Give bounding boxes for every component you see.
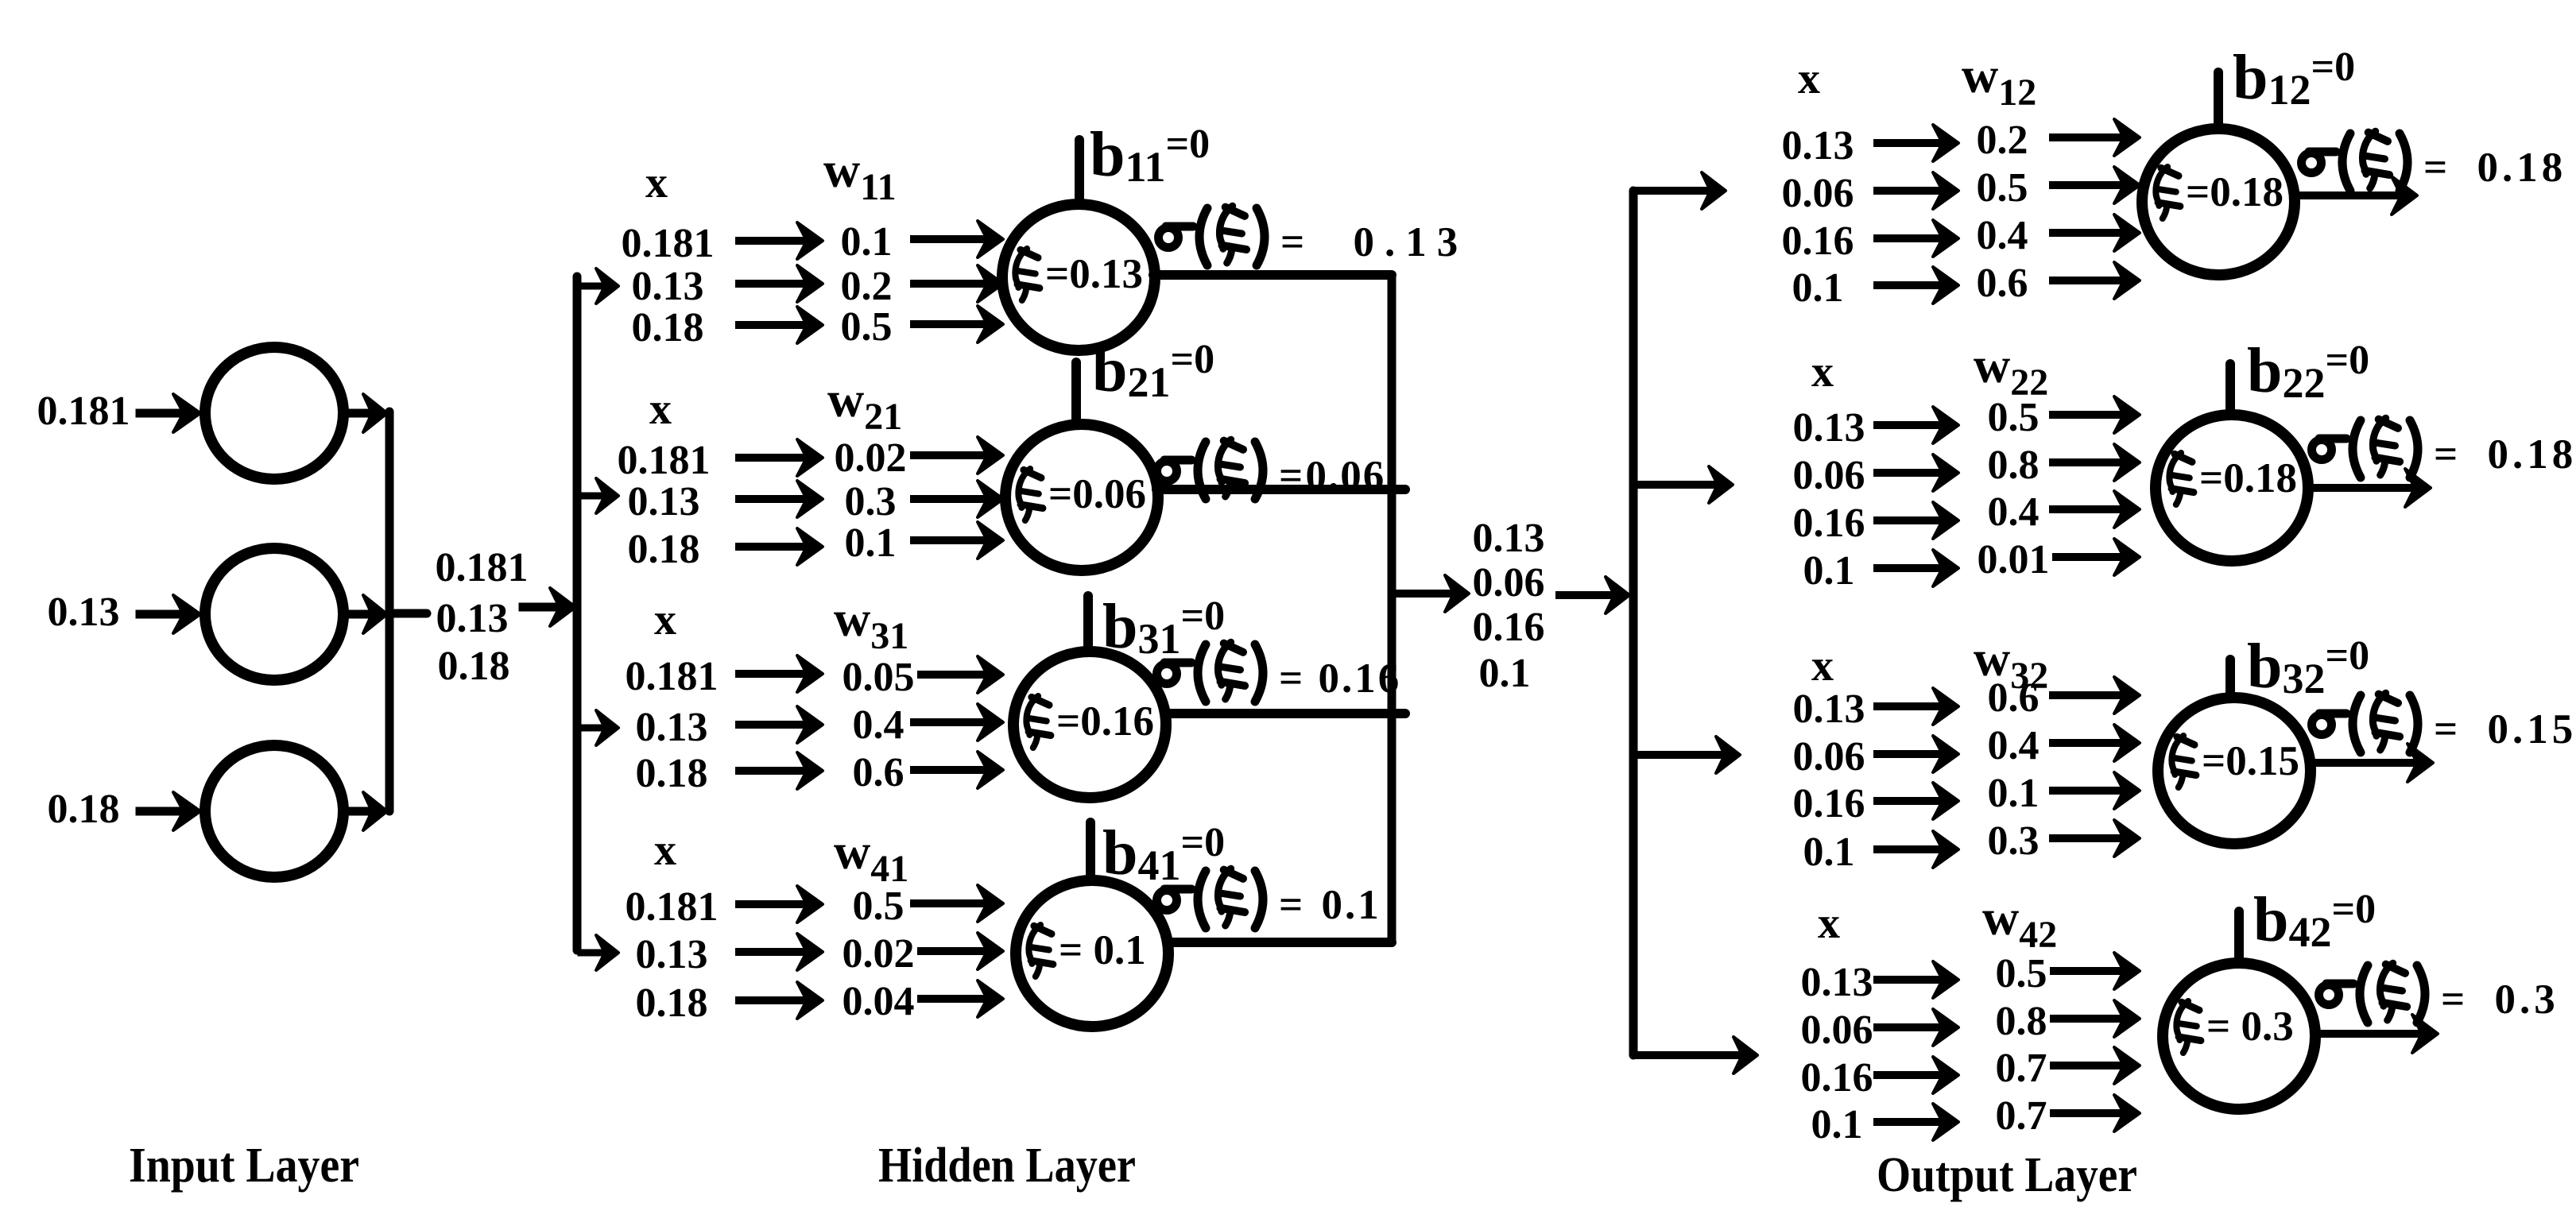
svg-text:0.1: 0.1 bbox=[845, 520, 897, 566]
hidden block 41 arrow w->neuron row 3 bbox=[921, 981, 1003, 1017]
svg-text:0.06: 0.06 bbox=[1793, 453, 1865, 498]
svg-text:x: x bbox=[1811, 641, 1834, 690]
svg-text:=0.13: =0.13 bbox=[1045, 251, 1143, 297]
svg-text:0.4: 0.4 bbox=[853, 702, 905, 748]
output block 12 arrow w->neuron row 1 bbox=[2053, 119, 2140, 156]
svg-text:= 0.15: = 0.15 bbox=[2434, 706, 2576, 752]
svg-text:0.181: 0.181 bbox=[626, 654, 719, 699]
output block 32 arrow x->w row 3 bbox=[1877, 783, 1958, 819]
bias wire b11 bbox=[1075, 140, 1084, 205]
output neuron O12 bbox=[2142, 129, 2295, 275]
branch arrow to hidden neuron H31 bbox=[581, 710, 618, 745]
bias wire b21 bbox=[1071, 362, 1081, 424]
output block 42 arrow w->neuron row 2 bbox=[2054, 1000, 2140, 1037]
wire collect bus stub bbox=[389, 609, 427, 618]
output arrow from neuron O42 bbox=[2314, 1015, 2438, 1053]
wire hidden neuron H11 output bbox=[1153, 270, 1392, 280]
svg-text:0.1: 0.1 bbox=[1988, 771, 2039, 816]
output arrow from neuron O32 bbox=[2309, 744, 2433, 782]
output block 32 arrow x->w row 2 bbox=[1877, 736, 1958, 772]
bias wire b31 bbox=[1083, 596, 1093, 650]
svg-text:= 0.3: = 0.3 bbox=[2441, 977, 2559, 1023]
svg-text:Output Layer: Output Layer bbox=[1877, 1148, 2137, 1202]
svg-text:= 0.1: = 0.1 bbox=[1059, 927, 1146, 973]
wire hidden neuron H21 output bbox=[1156, 485, 1405, 494]
output block 32 arrow w->neuron row 1 bbox=[2053, 677, 2140, 714]
branch arrow to output neuron O32 bbox=[1638, 737, 1740, 773]
output block 22 arrow w->neuron row 1 bbox=[2053, 396, 2140, 433]
output block 42 arrow w->neuron row 4 bbox=[2054, 1095, 2140, 1131]
svg-text:0.13: 0.13 bbox=[636, 705, 708, 750]
svg-text:= 0.16: = 0.16 bbox=[1279, 656, 1401, 702]
output block 32 arrow x->w row 1 bbox=[1877, 688, 1958, 725]
svg-text:0.16: 0.16 bbox=[1782, 219, 1854, 264]
svg-text:0.18: 0.18 bbox=[632, 305, 704, 350]
svg-text:0.02: 0.02 bbox=[835, 435, 907, 481]
branch arrow to hidden neuron H41 bbox=[581, 935, 618, 970]
hidden neuron H31 bbox=[1013, 652, 1166, 798]
svg-text:0.16: 0.16 bbox=[1801, 1055, 1873, 1100]
hidden distribution bus bbox=[573, 277, 582, 950]
svg-text:0.02: 0.02 bbox=[843, 931, 915, 977]
svg-text:0.13: 0.13 bbox=[1801, 960, 1873, 1005]
activation label sigma(xi)=0.06 bbox=[1157, 439, 1386, 499]
output block 12 arrow w->neuron row 3 bbox=[2053, 215, 2140, 251]
arrow input 3 bbox=[140, 792, 200, 830]
svg-text:x: x bbox=[645, 158, 668, 207]
output neuron O32 bbox=[2158, 698, 2311, 844]
svg-text:0.13: 0.13 bbox=[632, 264, 704, 309]
hidden neuron H11 bbox=[1002, 204, 1155, 350]
hidden block 31 arrow x->w row 2 bbox=[739, 706, 823, 743]
output block 32 arrow w->neuron row 4 bbox=[2053, 820, 2140, 857]
output block 22 arrow w->neuron row 4 bbox=[2056, 539, 2140, 575]
output block 42 arrow x->w row 1 bbox=[1877, 961, 1958, 998]
output arrow from neuron O12 bbox=[2293, 176, 2417, 215]
hidden block 31 arrow w->neuron row 1 bbox=[921, 656, 1003, 693]
output block 42 arrow w->neuron row 1 bbox=[2054, 953, 2140, 989]
output block 22 arrow w->neuron row 2 bbox=[2053, 444, 2140, 481]
svg-text:0.181: 0.181 bbox=[436, 545, 529, 590]
hidden block 41 arrow x->w row 3 bbox=[739, 982, 823, 1019]
hidden block 21 arrow x->w row 2 bbox=[739, 481, 823, 517]
input node I3 bbox=[205, 745, 343, 877]
svg-text:x: x bbox=[654, 826, 676, 875]
svg-text:0.18: 0.18 bbox=[636, 981, 708, 1026]
output block 12 arrow x->w row 1 bbox=[1877, 125, 1958, 161]
svg-text:0.13: 0.13 bbox=[436, 596, 509, 641]
svg-text:0.1: 0.1 bbox=[1803, 830, 1855, 875]
svg-text:0.181: 0.181 bbox=[626, 884, 719, 930]
svg-text:0.16: 0.16 bbox=[1793, 781, 1865, 826]
svg-text:0.16: 0.16 bbox=[1793, 501, 1865, 546]
output block 32 arrow w->neuron row 2 bbox=[2053, 725, 2140, 761]
svg-text:0.4: 0.4 bbox=[1988, 489, 2039, 535]
svg-text:0.1: 0.1 bbox=[1479, 651, 1531, 696]
svg-text:0.13: 0.13 bbox=[1473, 516, 1545, 561]
hidden block 31 arrow w->neuron row 3 bbox=[914, 752, 1003, 788]
output block 42 arrow w->neuron row 3 bbox=[2054, 1047, 2140, 1084]
svg-text:0.1: 0.1 bbox=[1811, 1102, 1863, 1147]
svg-text:0.01: 0.01 bbox=[1978, 537, 2050, 582]
output neuron O12 xi value bbox=[2156, 167, 2180, 219]
hidden neuron H31 xi value bbox=[1026, 696, 1051, 748]
hidden block 21 arrow x->w row 3 bbox=[739, 528, 823, 565]
hidden block 31 arrow x->w row 3 bbox=[739, 752, 823, 789]
svg-text:0.181: 0.181 bbox=[622, 221, 715, 266]
svg-text:0.4: 0.4 bbox=[1977, 213, 2028, 258]
bias wire b12 bbox=[2214, 72, 2223, 129]
svg-text:0.3: 0.3 bbox=[845, 479, 897, 524]
activation label sigma(xi)=0.16 bbox=[1157, 642, 1402, 702]
svg-text:0.1: 0.1 bbox=[1803, 548, 1855, 594]
arrow x list into hidden distribution bus bbox=[523, 588, 575, 626]
bias wire b22 bbox=[2225, 364, 2235, 413]
svg-text:0.06: 0.06 bbox=[1793, 734, 1865, 779]
svg-text:0.8: 0.8 bbox=[1996, 999, 2047, 1044]
svg-text:= 0.18: = 0.18 bbox=[2434, 431, 2576, 478]
svg-text:0.5: 0.5 bbox=[1988, 395, 2039, 440]
svg-text:0.18: 0.18 bbox=[48, 787, 120, 832]
output block 22 arrow x->w row 1 bbox=[1877, 407, 1958, 443]
svg-text:0.06: 0.06 bbox=[1473, 560, 1545, 605]
wire input node I1 to collect bus bbox=[345, 394, 387, 432]
svg-text:0.181: 0.181 bbox=[618, 438, 711, 483]
svg-text:0.13: 0.13 bbox=[1793, 405, 1865, 451]
svg-text:0.5: 0.5 bbox=[841, 304, 893, 350]
svg-text:x: x bbox=[1818, 899, 1840, 948]
output block 22 arrow x->w row 3 bbox=[1877, 502, 1958, 539]
output block 22 arrow w->neuron row 3 bbox=[2053, 491, 2140, 528]
output neuron O22 bbox=[2156, 415, 2308, 561]
svg-text:0.13: 0.13 bbox=[636, 932, 708, 977]
svg-text:0.1: 0.1 bbox=[1792, 265, 1844, 311]
input collect bus bbox=[385, 412, 394, 811]
hidden block 41 arrow w->neuron row 2 bbox=[921, 933, 1003, 969]
svg-text:0.13: 0.13 bbox=[628, 479, 700, 524]
wire hidden neuron H31 output bbox=[1164, 709, 1405, 718]
svg-text:Input Layer: Input Layer bbox=[129, 1139, 359, 1193]
svg-text:0.7: 0.7 bbox=[1996, 1046, 2047, 1091]
hidden block 11 arrow x->w row 1 bbox=[739, 222, 823, 259]
svg-text:= 0.13: = 0.13 bbox=[1280, 219, 1468, 265]
hidden block 11 arrow x->w row 2 bbox=[739, 265, 823, 302]
output block 12 arrow x->w row 2 bbox=[1877, 172, 1958, 209]
svg-text:0.8: 0.8 bbox=[1988, 443, 2039, 488]
activation label sigma(xi)=0.3 bbox=[2319, 963, 2559, 1023]
svg-text:x: x bbox=[649, 385, 672, 434]
svg-text:0.13: 0.13 bbox=[1782, 123, 1854, 168]
branch arrow to output neuron O22 bbox=[1638, 466, 1733, 503]
hidden block 31 arrow w->neuron row 2 bbox=[914, 704, 1003, 741]
arrow input 1 bbox=[140, 394, 200, 432]
svg-text:0.6: 0.6 bbox=[1977, 261, 2028, 306]
hidden neuron H21 bbox=[1005, 424, 1158, 571]
output block 12 arrow x->w row 3 bbox=[1877, 220, 1958, 257]
wire input node I2 to collect bus bbox=[345, 595, 387, 633]
svg-text:0.6: 0.6 bbox=[1988, 675, 2039, 721]
output block 32 arrow w->neuron row 3 bbox=[2053, 772, 2140, 809]
bias wire b42 bbox=[2234, 911, 2244, 961]
hidden block 41 arrow x->w row 1 bbox=[739, 886, 823, 922]
output neuron O42 bbox=[2163, 963, 2315, 1109]
branch arrow to output neuron O42 bbox=[1638, 1037, 1757, 1073]
arrow hidden outputs to y list bbox=[1396, 575, 1469, 612]
hidden collect bus bbox=[1388, 275, 1396, 942]
bias wire b41 bbox=[1086, 822, 1095, 879]
svg-text:Hidden Layer: Hidden Layer bbox=[878, 1139, 1136, 1193]
output arrow from neuron O22 bbox=[2307, 469, 2431, 507]
svg-text:0.13: 0.13 bbox=[48, 590, 120, 635]
arrow input 2 bbox=[140, 595, 200, 633]
output block 22 arrow x->w row 2 bbox=[1877, 454, 1958, 491]
hidden block 11 arrow w->neuron row 1 bbox=[914, 221, 1003, 257]
output neuron O32 xi value bbox=[2171, 736, 2196, 787]
activation label sigma(xi)=0.18 bbox=[2302, 131, 2567, 191]
hidden block 21 arrow w->neuron row 2 bbox=[914, 481, 1003, 517]
branch arrow to output neuron O12 bbox=[1638, 172, 1726, 209]
svg-text:=0.15: =0.15 bbox=[2202, 738, 2299, 784]
svg-text:x: x bbox=[1798, 54, 1820, 103]
output block 42 arrow x->w row 3 bbox=[1877, 1057, 1958, 1093]
svg-text:x: x bbox=[1811, 347, 1834, 396]
output neuron O22 xi value bbox=[2169, 453, 2194, 505]
output block 42 arrow x->w row 4 bbox=[1877, 1104, 1958, 1140]
svg-text:0.6: 0.6 bbox=[853, 750, 905, 795]
svg-text:= 0.18: = 0.18 bbox=[2423, 145, 2566, 191]
output block 12 arrow w->neuron row 4 bbox=[2053, 262, 2140, 299]
hidden neuron H21 xi value bbox=[1018, 469, 1043, 520]
branch arrow to hidden neuron H11 bbox=[581, 269, 618, 304]
svg-text:0.181: 0.181 bbox=[37, 389, 130, 434]
hidden block 11 arrow w->neuron row 3 bbox=[914, 306, 1003, 342]
output block 22 arrow x->w row 4 bbox=[1877, 550, 1958, 586]
svg-text:= 0.3: = 0.3 bbox=[2206, 1004, 2294, 1050]
output neuron O42 xi value bbox=[2176, 1001, 2201, 1053]
svg-text:x: x bbox=[654, 595, 676, 644]
hidden block 41 arrow w->neuron row 1 bbox=[914, 885, 1003, 922]
arrow y list into output distribution bus bbox=[1559, 577, 1629, 613]
svg-text:=0.06: =0.06 bbox=[1048, 471, 1146, 517]
activation label sigma(xi)=0.1 bbox=[1157, 868, 1381, 928]
activation label sigma(xi)=0.13 bbox=[1159, 206, 1469, 265]
svg-text:=0.18: =0.18 bbox=[2186, 169, 2284, 215]
hidden block 21 arrow x->w row 1 bbox=[739, 439, 823, 476]
hidden neuron H11 xi value bbox=[1015, 249, 1040, 300]
branch arrow to hidden neuron H21 bbox=[581, 478, 618, 513]
svg-text:0.2: 0.2 bbox=[1977, 118, 2028, 163]
svg-text:0.13: 0.13 bbox=[1793, 687, 1865, 732]
svg-text:0.3: 0.3 bbox=[1988, 818, 2039, 864]
hidden block 41 arrow x->w row 2 bbox=[739, 934, 823, 970]
input node I2 bbox=[205, 548, 343, 680]
svg-text:0.06: 0.06 bbox=[1782, 171, 1854, 216]
svg-text:0.2: 0.2 bbox=[841, 264, 893, 309]
output block 12 arrow x->w row 4 bbox=[1877, 267, 1958, 304]
hidden block 21 arrow w->neuron row 3 bbox=[914, 522, 1003, 559]
bias wire b32 bbox=[2225, 659, 2235, 696]
svg-text:0.4: 0.4 bbox=[1988, 723, 2039, 768]
input node I1 bbox=[205, 347, 343, 479]
svg-text:0.5: 0.5 bbox=[1977, 165, 2028, 211]
hidden neuron H41 bbox=[1016, 880, 1168, 1027]
svg-text:0.04: 0.04 bbox=[843, 979, 915, 1024]
activation label sigma(xi)=0.18 bbox=[2312, 418, 2576, 478]
svg-text:0.05: 0.05 bbox=[843, 655, 915, 700]
output block 32 arrow x->w row 4 bbox=[1877, 831, 1958, 868]
svg-text:0.16: 0.16 bbox=[1473, 605, 1545, 650]
svg-text:0.7: 0.7 bbox=[1996, 1093, 2047, 1139]
svg-text:= 0.1: = 0.1 bbox=[1279, 882, 1381, 928]
hidden neuron H41 xi value bbox=[1028, 925, 1053, 977]
activation label sigma(xi)=0.15 bbox=[2312, 693, 2576, 752]
output distribution bus bbox=[1629, 191, 1638, 1055]
hidden block 11 arrow w->neuron row 2 bbox=[914, 265, 1003, 302]
svg-text:0.5: 0.5 bbox=[1996, 951, 2047, 996]
output block 42 arrow x->w row 2 bbox=[1877, 1009, 1958, 1046]
output block 12 arrow w->neuron row 2 bbox=[2053, 167, 2140, 203]
svg-text:=0.16: =0.16 bbox=[1056, 698, 1154, 745]
svg-text:0.1: 0.1 bbox=[841, 219, 893, 265]
wire hidden neuron H41 output bbox=[1167, 938, 1392, 947]
wire input node I3 to collect bus bbox=[345, 792, 387, 830]
svg-text:0.18: 0.18 bbox=[636, 751, 708, 796]
svg-text:0.18: 0.18 bbox=[628, 527, 700, 572]
hidden block 11 arrow x->w row 3 bbox=[739, 307, 823, 343]
hidden block 31 arrow x->w row 1 bbox=[739, 656, 823, 692]
svg-text:0.06: 0.06 bbox=[1801, 1008, 1873, 1053]
svg-text:=0.18: =0.18 bbox=[2199, 455, 2297, 501]
svg-text:0.5: 0.5 bbox=[853, 884, 905, 929]
svg-text:0.18: 0.18 bbox=[438, 644, 510, 689]
hidden block 21 arrow w->neuron row 1 bbox=[914, 437, 1003, 474]
